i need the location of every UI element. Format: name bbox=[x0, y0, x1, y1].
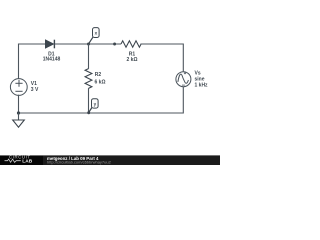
wire: V1 bottom to rail junction bbox=[18, 95, 20, 113]
wire: top rail from left corner to diode anode bbox=[19, 44, 46, 79]
resistor R1 bbox=[121, 41, 141, 47]
wire: R1 right to top-right corner, down to Vs bbox=[140, 44, 183, 71]
ground bbox=[13, 113, 25, 127]
svg-text:R2: R2 bbox=[95, 72, 102, 78]
wire: Vs bottom to bottom rail bbox=[19, 87, 184, 113]
junction node at x flag bbox=[87, 43, 90, 46]
junction dot at ground bbox=[17, 111, 20, 114]
svg-text:http://circuitlab.com/c6bbrwha: http://circuitlab.com/c6bbrwhay7uu2 bbox=[47, 160, 112, 165]
wire: junction to R1 left bbox=[89, 43, 122, 45]
svg-text:3 V: 3 V bbox=[31, 87, 39, 93]
wire: top lead of R2 bbox=[88, 44, 90, 69]
svg-text:LAB: LAB bbox=[22, 159, 32, 165]
svg-text:1N4148: 1N4148 bbox=[43, 57, 61, 63]
wire: diode cathode to node-x junction bbox=[54, 43, 88, 45]
resistor R2 bbox=[85, 44, 92, 113]
wire: bottom lead of R2 bbox=[88, 88, 90, 113]
junction dot on top rail bbox=[113, 43, 116, 46]
voltage source V1 bbox=[10, 79, 27, 96]
svg-text:y: y bbox=[94, 102, 97, 107]
voltage source Vs (sine) bbox=[176, 72, 191, 87]
CircuitLab logo: resistor zigzag bbox=[5, 159, 21, 162]
junction node y on bottom rail bbox=[87, 111, 90, 114]
svg-text:1 kHz: 1 kHz bbox=[195, 82, 209, 88]
svg-text:x: x bbox=[95, 31, 98, 36]
diode D1 bbox=[45, 40, 54, 49]
footer bar bbox=[0, 155, 220, 165]
node x flag bbox=[89, 28, 100, 44]
svg-text:6 kΩ: 6 kΩ bbox=[95, 79, 106, 85]
svg-text:2 kΩ: 2 kΩ bbox=[127, 57, 138, 63]
node y flag bbox=[89, 99, 98, 113]
